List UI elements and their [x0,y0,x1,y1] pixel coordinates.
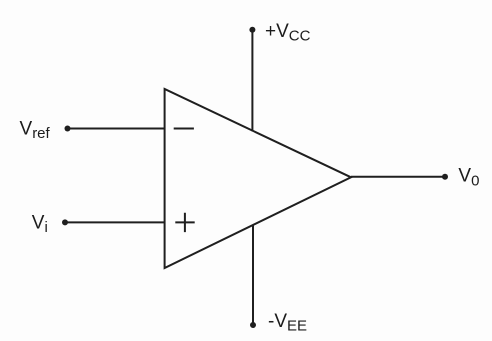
node +Vcc terminal [249,27,255,33]
node Vref terminal [65,126,71,132]
inverting input minus marker [174,128,194,130]
wire +Vcc supply [251,30,253,132]
node -Vee terminal [250,322,256,328]
non-inverting input plus marker [175,213,194,232]
op-amp U1 [165,89,351,268]
node V0 terminal [442,174,448,180]
wire Vref to inverting input [68,128,165,130]
node Vi terminal [62,219,68,225]
wire Vi to non-inverting input [65,221,165,223]
wire -Vee supply [252,225,254,325]
wire output to V0 [351,176,445,178]
